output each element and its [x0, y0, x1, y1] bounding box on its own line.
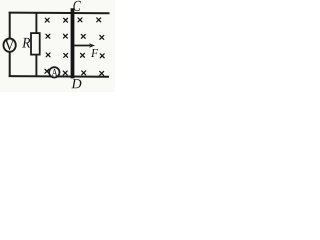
wire: resistor branch vertical	[35, 13, 37, 77]
wire: top rail	[9, 12, 110, 15]
background	[0, 0, 115, 92]
label D	[71, 79, 81, 88]
label A	[52, 69, 58, 76]
rod CD (sliding conductor)	[71, 8, 75, 78]
x row3	[46, 53, 50, 57]
wire: bottom rail	[9, 75, 109, 78]
label F	[91, 49, 98, 57]
resistor R (box)	[31, 33, 40, 55]
ammeter U-A (circle)	[49, 67, 59, 77]
x row4	[45, 69, 49, 73]
wire: left vertical	[9, 12, 11, 77]
voltmeter U-V (circle)	[3, 39, 15, 52]
x row1	[45, 18, 49, 22]
label R	[22, 38, 30, 48]
label C	[73, 1, 80, 11]
label V	[5, 40, 15, 50]
field marks: x symbols (B into page)	[45, 18, 104, 75]
x row2	[46, 34, 50, 38]
force arrow F	[74, 43, 95, 47]
